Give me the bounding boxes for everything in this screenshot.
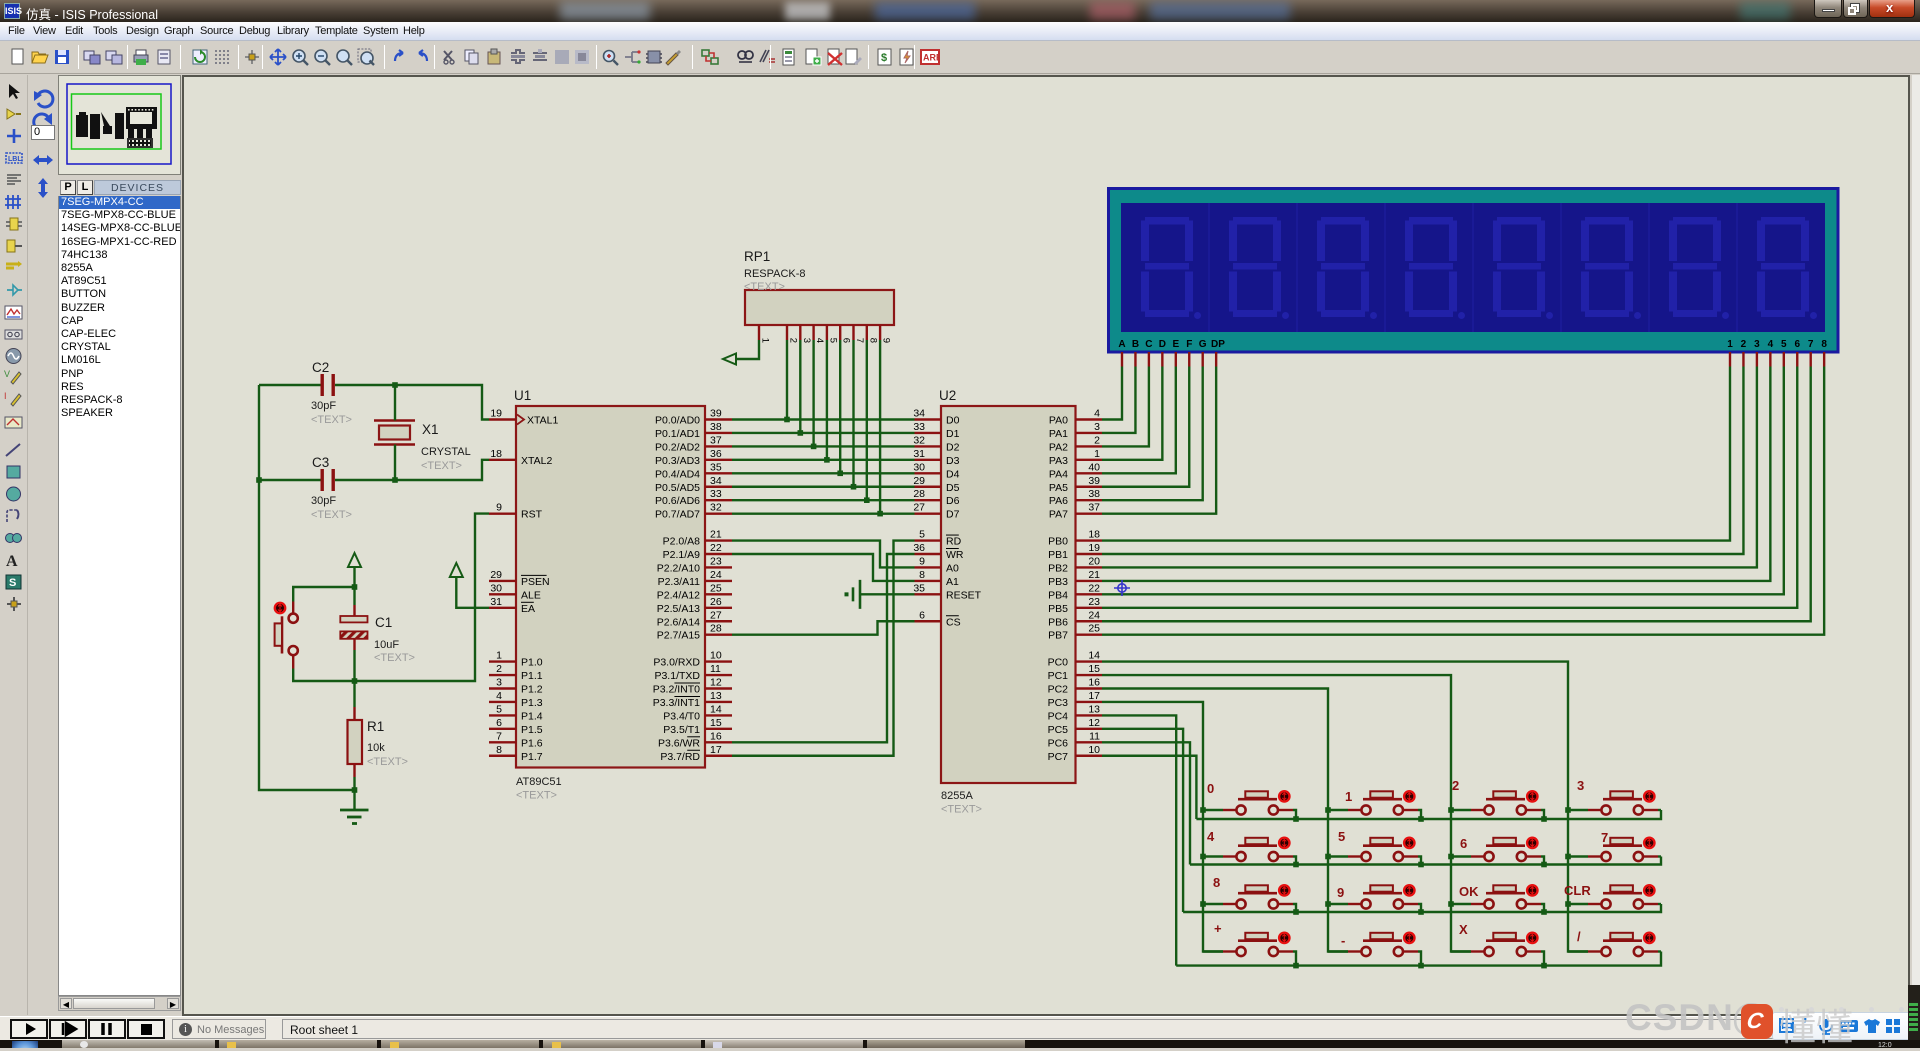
U1 pin 30 ALE [489,582,541,601]
svg-text:PC6: PC6 [1048,737,1069,749]
svg-text:P1.1: P1.1 [521,670,543,682]
wire PC5 (U2.12) keypad row 3 [1102,729,1183,912]
U2 pin 36 WR [913,542,964,561]
svg-text:1: 1 [496,650,502,662]
IC U1 body [516,406,705,768]
svg-text:6: 6 [841,338,852,343]
junction on P0.5 at RP1 drop [851,484,857,490]
svg-text:P2.2/A10: P2.2/A10 [657,562,700,574]
power terminal VCC at RP1 [723,354,736,365]
U2 pin 1 PA3 [1049,448,1102,467]
svg-text:PSEN: PSEN [521,576,550,588]
svg-text:A1: A1 [946,576,959,588]
wire PC7 (U2.10) keypad row 1 [1102,756,1196,819]
svg-text:6: 6 [496,717,502,729]
U1 pin 7 P1.6 [489,730,543,749]
push button key 9 [1328,885,1418,908]
svg-text:20: 20 [1088,555,1100,567]
junction key 5 on row 2 line [1418,862,1424,868]
U1 pin 1 P1.0 [489,650,543,669]
svg-text:-: - [1341,933,1345,948]
svg-text:<TEXT>: <TEXT> [367,756,408,768]
7seg digit 3 [1317,217,1377,319]
capacitor C2 [259,374,395,396]
svg-text:PC3: PC3 [1048,697,1069,709]
svg-text:15: 15 [1088,663,1100,675]
svg-text:RESET: RESET [946,589,982,601]
label R1 [367,719,384,734]
wire key + right terminal to row line [1293,952,1296,966]
svg-text:13: 13 [710,690,722,702]
U2 pin 29 D5 [913,475,959,494]
svg-text:9: 9 [496,502,502,514]
svg-text:8: 8 [867,338,878,343]
wire PA6 (U2.38) to display segment G [1102,367,1203,501]
display digit pin 8 [1823,352,1825,367]
windows taskbar sliver [0,1040,1920,1048]
orientation panel [28,75,58,1016]
U1 pin 25 P2.4/A12 [657,582,732,601]
svg-text:P3.7/RD: P3.7/RD [660,751,700,763]
svg-text:CLR: CLR [1564,883,1591,898]
key 7 label [1601,830,1608,845]
RP1 pin 2 [787,325,799,343]
RP1 pin 6 [840,325,852,343]
svg-text:D5: D5 [946,482,960,494]
U2 pin 11 PC6 [1048,730,1102,749]
svg-text:<TEXT>: <TEXT> [311,509,352,521]
label C1 [375,615,392,630]
wire P0.6/AD6: U1 pin 33 to U2 D6 pin 28 [732,499,915,501]
svg-text:3: 3 [1577,778,1584,793]
svg-text:9: 9 [919,555,925,567]
7seg digit 2 [1229,217,1289,319]
junction RST node [352,678,358,684]
wire PB7 (U2.25) to display digit pin 8 [1102,367,1824,635]
svg-text:26: 26 [710,596,722,608]
svg-text:P1.7: P1.7 [521,751,543,763]
svg-text:0: 0 [1207,781,1214,796]
svg-text:DP: DP [1211,339,1225,350]
junction column 3 row 2 [1448,854,1454,860]
label U2 [939,388,956,403]
wire PA0 (U2.4) to display segment A [1102,367,1122,420]
U2 pin 37 PA7 [1049,502,1102,521]
RP1 pin 1 [759,325,771,343]
wire key 5 right terminal to row line [1418,857,1421,865]
svg-text:RP1: RP1 [744,249,770,264]
U1 pin 19 XTAL1 [489,408,558,427]
U2 pin 30 D4 [913,461,959,480]
push button key / [1568,933,1658,956]
svg-text:10uF: 10uF [374,639,399,651]
display digit pin 5 [1783,352,1785,367]
svg-text:18: 18 [490,448,502,460]
svg-text:A: A [6,553,18,570]
display segment pin A [1121,352,1123,367]
svg-text:P2.0/A8: P2.0/A8 [663,536,701,548]
push button key CLR [1568,885,1658,908]
svg-text:P0.2/AD2: P0.2/AD2 [655,441,700,453]
svg-text:33: 33 [710,488,722,500]
U2 pin 4 PA0 [1049,408,1102,427]
push button key 8 [1203,885,1293,908]
junction column 3 row 3 [1448,901,1454,907]
svg-text:27: 27 [710,609,722,621]
junction column 2 row 3 [1325,901,1331,907]
junction ground node under R1 [352,787,358,793]
RP1 pin 8 [867,325,879,343]
U2 pin 14 PC0 [1048,650,1102,669]
U1 pin 5 P1.4 [489,703,543,722]
label C2 [312,360,329,375]
svg-text:P1.4: P1.4 [521,710,543,722]
svg-text:X: X [1459,922,1468,937]
P L DEVICES row [58,179,181,196]
U2 pin 8 A1 [915,569,960,588]
svg-text:13: 13 [1088,703,1100,715]
junction column 3 row 1 [1448,807,1454,813]
svg-text:D: D [1159,339,1166,350]
keypad row 4 line [1176,952,1661,966]
display digit pin 6 [1796,352,1798,367]
svg-text:PA5: PA5 [1049,482,1068,494]
svg-text:39: 39 [710,408,722,420]
svg-text:+: + [1214,921,1222,936]
junction on P0.2 at RP1 drop [811,444,817,450]
U1 pin 33 P0.6/AD6 [655,488,732,507]
wire PA1 (U2.3) to display segment B [1102,367,1135,433]
svg-text:1: 1 [760,338,771,343]
junction column 2 row 2 [1325,854,1331,860]
wire key 3 right terminal to row line [1658,809,1661,811]
ground symbol under R1 [340,790,369,824]
U1 pin 24 P2.3/A11 [658,569,732,588]
svg-text:PB3: PB3 [1048,576,1068,588]
junction key OK on row 3 line [1541,909,1547,915]
svg-text:38: 38 [1088,488,1100,500]
svg-text:C3: C3 [312,455,329,470]
U2 pin 2 PA2 [1049,434,1102,453]
U1 pin 36 P0.3/AD3 [655,448,732,467]
U1 pin 9 RST [489,502,543,521]
svg-text:1: 1 [1094,448,1100,460]
svg-text:E: E [1172,339,1179,350]
U2 pin 35 RESET [913,582,981,601]
wire P0.4/AD4: U1 pin 35 to U2 D4 pin 30 [732,472,915,474]
title bar [0,0,1920,22]
value label RESPACK-8 [744,268,806,293]
sogou input bar [1772,1012,1920,1040]
capacitor C3 [259,469,395,491]
svg-text:P2.3/A11: P2.3/A11 [658,576,701,588]
value label AT89C51 of U1 [516,776,562,802]
svg-text:OK: OK [1459,884,1479,899]
svg-text:4: 4 [1094,408,1100,420]
svg-text:P2.6/A14: P2.6/A14 [657,616,700,628]
svg-text:40: 40 [1088,461,1100,473]
wire P3.6/WR (U1.16) to WR (U2.36) [732,554,915,742]
7seg digit 6 [1581,217,1641,319]
svg-text:24: 24 [1088,609,1100,621]
value label 10k of R1 [367,742,408,768]
U2 pin 34 D0 [913,408,959,427]
status bar [0,1016,1920,1040]
svg-text:P2.4/A12: P2.4/A12 [657,589,700,601]
push button key 4 [1203,838,1293,861]
wire key 1 right terminal to row line [1418,810,1421,819]
key 9 label [1337,885,1344,900]
svg-text:PA6: PA6 [1049,495,1068,507]
svg-text:PA0: PA0 [1049,415,1068,427]
svg-text:7: 7 [854,338,865,343]
svg-text:1: 1 [1727,339,1733,350]
svg-text:D3: D3 [946,455,960,467]
U2 pin 17 PC3 [1048,690,1102,709]
wire RP1 pin 9 to P0.7 net [879,340,881,514]
wire key 9 right terminal to row line [1418,904,1421,912]
junction column 2 row 1 [1325,807,1331,813]
display digit pin 4 [1769,352,1771,367]
wire P0.1/AD1: U1 pin 38 to U2 D1 pin 33 [732,432,915,434]
junction on P0.3 at RP1 drop [824,457,830,463]
svg-text:36: 36 [913,542,925,554]
junction column 1 row 1 [1200,807,1206,813]
svg-text:9: 9 [881,338,892,343]
wire P2.7/A15 (U1.28) to CS (U2.6) [732,621,915,634]
U2 pin 13 PC4 [1048,703,1102,722]
svg-text:28: 28 [913,488,925,500]
key 6 label [1460,836,1467,851]
svg-text:29: 29 [913,475,925,487]
U2 pin 24 PB6 [1048,609,1102,628]
svg-text:RD: RD [946,536,962,548]
list horizontal scrollbar [58,996,181,1011]
key 0 label [1207,781,1214,796]
svg-text:8: 8 [496,744,502,756]
svg-text:16: 16 [710,730,722,742]
left toolbar column [0,75,28,1015]
U2 pin 28 D6 [913,488,959,507]
wire reset button bottom to RST node [293,669,354,682]
svg-text:7: 7 [1808,339,1814,350]
junction on P0.0 at RP1 drop [784,417,790,423]
svg-text:14: 14 [710,703,722,715]
svg-text:12: 12 [710,677,722,689]
junction key 2 on row 1 line [1541,816,1547,822]
junction crystal top node [392,382,398,388]
junction column 4 row 3 [1565,901,1571,907]
value label 10uF of C1 [374,639,415,664]
svg-text:5: 5 [919,529,925,541]
svg-text:S: S [9,577,16,589]
wire PB3 (U2.21) to display digit pin 4 [1102,367,1770,581]
svg-text:PC1: PC1 [1048,670,1069,682]
svg-text:23: 23 [710,555,722,567]
svg-text:A: A [1118,339,1125,350]
U1 pin 39 P0.0/AD0 [655,408,732,427]
svg-text:PB5: PB5 [1048,603,1068,615]
wire P0.2/AD2: U1 pin 37 to U2 D2 pin 32 [732,445,915,447]
key - label [1341,933,1345,948]
svg-text:34: 34 [710,475,722,487]
wire RST node to U1 RST pin 9 [355,514,490,681]
svg-text:4: 4 [496,690,502,702]
svg-text:<TEXT>: <TEXT> [516,790,557,802]
svg-text:6: 6 [919,609,925,621]
power terminal VCC above reset button [348,553,361,587]
svg-text:P2.1/A9: P2.1/A9 [663,549,701,561]
key 3 label [1577,778,1584,793]
key + label [1214,921,1222,936]
U1 pin 32 P0.7/AD7 [655,502,732,521]
junction on P0.6 at RP1 drop [864,497,870,503]
svg-text:9: 9 [1337,885,1344,900]
svg-text:P2.5/A13: P2.5/A13 [657,603,700,615]
U1 pin 15 P3.5/T1 [663,717,732,736]
junction column 4 row 2 [1565,854,1571,860]
wire key 7 right terminal to row line [1658,855,1661,857]
U1 pin 14 P3.4/T0 [663,703,732,722]
junction VCC node (button top / C1 top) [352,584,358,590]
svg-text:P3.6/WR: P3.6/WR [658,737,700,749]
U1 pin 23 P2.2/A10 [657,555,732,574]
U2 pin 23 PB5 [1048,596,1102,615]
U1 pin 16 P3.6/WR [658,730,732,749]
svg-text:5: 5 [1338,829,1345,844]
push button key + [1203,933,1293,956]
svg-text:D2: D2 [946,441,960,453]
U1 pin 8 P1.7 [489,744,543,763]
svg-text:30: 30 [913,461,925,473]
svg-text:PB1: PB1 [1048,549,1068,561]
junction column 1 row 3 [1200,901,1206,907]
display segment pin F [1188,352,1190,367]
svg-text:XTAL2: XTAL2 [521,455,552,467]
push button key 7 [1568,838,1658,861]
svg-text:31: 31 [490,596,502,608]
wire PA7 (U2.37) to display segment DP [1102,367,1216,514]
U2 pin 40 PA4 [1049,461,1102,480]
svg-text:33: 33 [913,421,925,433]
svg-text:EA: EA [521,603,535,615]
svg-text:F: F [1186,339,1192,350]
display digit pin 3 [1756,352,1758,367]
svg-text:P0.1/AD1: P0.1/AD1 [655,428,700,440]
svg-text:P3.5/T1: P3.5/T1 [663,724,700,736]
svg-text:2: 2 [788,338,799,343]
wire key 2 right terminal to row line [1541,810,1544,819]
svg-text:27: 27 [913,502,925,514]
junction column 4 row 1 [1565,807,1571,813]
svg-text:PA7: PA7 [1049,509,1068,521]
U2 pin 19 PB1 [1048,542,1102,561]
svg-text:D6: D6 [946,495,960,507]
svg-text:25: 25 [1088,623,1100,635]
RP1 pin 9 [880,325,892,343]
right edge scroll indicator [1908,985,1920,1040]
junction key 0 on row 1 line [1293,816,1299,822]
U2 pin 21 PB3 [1048,569,1102,588]
svg-text:22: 22 [710,542,722,554]
svg-text:2: 2 [496,663,502,675]
U1 pin 38 P0.1/AD1 [655,421,732,440]
U2 pin 22 PB4 [1048,582,1102,601]
U2 pin 31 D3 [913,448,959,467]
svg-text:31: 31 [913,448,925,460]
svg-text:<TEXT>: <TEXT> [311,414,352,426]
svg-text:D4: D4 [946,468,960,480]
wire P0.0/AD0: U1 pin 39 to U2 D0 pin 34 [732,418,915,420]
capacitor C1 10uF electrolytic [340,587,367,681]
wire P3.7/RD (U1.17) to RD (U2.5) [732,541,915,756]
push button key 6 [1451,838,1541,861]
svg-text:PB7: PB7 [1048,630,1068,642]
wire PB1 (U2.19) to display digit pin 2 [1102,367,1743,555]
wire RP1 pin 8 to P0.6 net [866,340,868,500]
right strip [1912,75,1920,1016]
svg-text:A0: A0 [946,562,959,574]
svg-text:C2: C2 [312,360,329,375]
U2 pin 9 A0 [915,555,960,574]
svg-text:PC7: PC7 [1048,751,1069,763]
wire VCC node to reset button top [293,587,354,602]
svg-text:17: 17 [1088,690,1100,702]
svg-text:4: 4 [814,338,825,343]
svg-text:<TEXT>: <TEXT> [421,460,462,472]
svg-text:XTAL1: XTAL1 [527,415,558,427]
wire RP1 pin 4 to P0.2 net [812,340,814,446]
svg-text:AT89C51: AT89C51 [516,776,562,788]
CSDN watermark [1625,997,1734,1039]
svg-text:30pF: 30pF [311,495,336,507]
svg-text:P0.7/AD7: P0.7/AD7 [655,509,700,521]
wire RP1 pin 2 to P0.0 net [786,340,788,420]
mouse crosshair cursor [1114,580,1130,596]
svg-text:25: 25 [710,582,722,594]
U2 pin 32 D2 [913,434,959,453]
svg-text:8: 8 [919,569,925,581]
junction on P0.7 at RP1 drop [877,511,883,517]
label U1 [514,388,531,403]
U2 pin 25 PB7 [1048,623,1102,642]
svg-text:12: 12 [1088,717,1100,729]
svg-text:8: 8 [1213,875,1220,890]
svg-text:5: 5 [496,703,502,715]
svg-text:17: 17 [710,744,722,756]
wire PB5 (U2.23) to display digit pin 6 [1102,367,1797,608]
display segment pin DP [1215,352,1217,367]
svg-text:PB2: PB2 [1048,562,1068,574]
key 5 label [1338,829,1345,844]
svg-text:30pF: 30pF [311,400,336,412]
svg-text:PC5: PC5 [1048,724,1069,736]
svg-text:P2.7/A15: P2.7/A15 [657,630,700,642]
U2 pin 10 PC7 [1048,744,1102,763]
svg-text:D7: D7 [946,509,960,521]
U1 pin 13 P3.3/INT1 [653,690,732,709]
U2 pin 6 CS [915,609,961,628]
display segment pin G [1201,352,1203,367]
menu bar [0,22,1920,41]
push button key 2 [1451,791,1541,814]
svg-text:PC0: PC0 [1048,657,1069,669]
wire RP1 pin 3 to P0.1 net [799,340,801,433]
wire key CLR right terminal to row line [1658,903,1661,905]
junction C3 left on GND rail [256,477,262,483]
U1 pin 10 P3.0/RXD [653,650,732,669]
junction on P0.1 at RP1 drop [798,430,804,436]
